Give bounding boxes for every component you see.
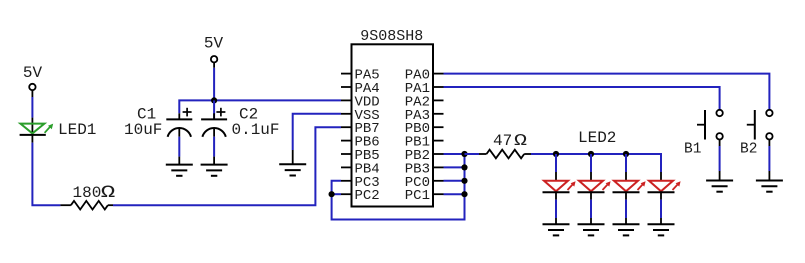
- svg-text:5V: 5V: [204, 34, 224, 52]
- wire 5V terminal to LED1 anode: [31, 90, 33, 117]
- junction dot PB3 column: [461, 164, 467, 170]
- svg-text:Ω: Ω: [514, 132, 527, 151]
- wire B2 to ground: [768, 140, 770, 181]
- junction dot LED2 rail 3: [623, 151, 629, 157]
- wire PC3 tie: [332, 181, 341, 194]
- svg-text:180: 180: [73, 184, 102, 202]
- ground (LED2b): [578, 224, 605, 235]
- wire PB3 to column: [444, 166, 465, 168]
- ground (LED2a): [543, 224, 570, 235]
- wire PA1 to B1: [444, 87, 720, 110]
- junction dot PC1 column: [461, 191, 467, 197]
- ground (C2): [201, 165, 228, 176]
- resistor 47ohm: [479, 132, 531, 158]
- svg-text:LED2: LED2: [578, 129, 616, 147]
- node 5V (LED1 supply): [23, 64, 43, 90]
- junction dot LED2 rail 1: [553, 151, 559, 157]
- switch B2: [740, 110, 773, 158]
- wire resistor 180ohm to pin PB7: [113, 127, 341, 205]
- LED LED2b: [578, 181, 611, 192]
- pin labels right: [405, 68, 430, 205]
- LED LED2d: [648, 181, 681, 192]
- svg-text:0.1uF: 0.1uF: [232, 121, 280, 139]
- wire PC1 to column: [444, 193, 465, 195]
- wire C2 to ground: [213, 137, 215, 165]
- wire PB2 to column: [444, 153, 465, 155]
- pin stubs right: [433, 74, 444, 195]
- ground (LED2d): [648, 224, 675, 235]
- svg-text:PC2: PC2: [355, 188, 380, 204]
- wire VSS to ground: [293, 114, 341, 165]
- svg-text:LED1: LED1: [58, 121, 96, 139]
- capacitor C2: [201, 100, 279, 139]
- svg-text:5V: 5V: [23, 64, 43, 82]
- pin labels left: [355, 68, 380, 205]
- junction dot PC2: [329, 191, 335, 197]
- wire rail tap LED2c: [625, 154, 627, 181]
- LED LED2a: [543, 181, 576, 192]
- junction dot LED2 rail 2: [588, 151, 594, 157]
- wire rail tap LED2a: [555, 154, 557, 181]
- node 5V (VDD supply): [204, 34, 224, 62]
- wire resistor 47ohm to LED2 rail: [531, 153, 556, 155]
- resistor 180ohm: [60, 183, 115, 210]
- wire LED2c to ground: [625, 192, 627, 224]
- wire bus column: [464, 154, 466, 220]
- svg-text:10uF: 10uF: [124, 121, 162, 139]
- wire B1 to ground: [719, 140, 721, 181]
- wire rail tap LED2d: [660, 172, 662, 181]
- ground (LED2c): [613, 224, 640, 235]
- ground (VSS): [279, 164, 306, 175]
- svg-text:PC1: PC1: [405, 188, 430, 204]
- LED LED1: [20, 118, 97, 143]
- junction dot PC0 column: [461, 178, 467, 184]
- svg-text:Ω: Ω: [101, 183, 116, 203]
- wire LED2b to ground: [590, 192, 592, 224]
- wire LED1 cathode to resistor R-180: [32, 143, 60, 206]
- wire VDD rail: [179, 100, 341, 113]
- ground (C1): [166, 165, 193, 176]
- wire rail tap LED2b: [590, 154, 592, 181]
- wire PC0 to column: [444, 180, 465, 182]
- ground (B1): [706, 181, 733, 192]
- svg-text:9S08SH8: 9S08SH8: [360, 28, 423, 45]
- junction dot PB2 column: [461, 151, 467, 157]
- wire C1 to ground: [178, 137, 180, 165]
- wire LED2d to ground: [660, 192, 662, 224]
- wire PC2 to bottom route: [332, 194, 465, 219]
- svg-text:B1: B1: [684, 142, 701, 158]
- wire PA0 to B2: [444, 74, 770, 110]
- wire 5V terminal to VDD rail: [213, 62, 215, 100]
- op-amp U1 microcontroller 9S08SH8: [352, 28, 434, 207]
- svg-text:B2: B2: [740, 142, 757, 158]
- ground (B2): [756, 181, 783, 192]
- pin stubs left: [341, 74, 352, 195]
- junction dot VDD rail: [211, 97, 217, 103]
- wire LED2a to ground: [555, 192, 557, 224]
- wire LED2 rail: [556, 154, 661, 172]
- switch B1: [684, 110, 723, 158]
- capacitor C1: [124, 106, 192, 139]
- svg-text:47: 47: [493, 132, 512, 150]
- LED LED2c: [613, 181, 646, 192]
- wire column to resistor 47ohm: [465, 153, 480, 155]
